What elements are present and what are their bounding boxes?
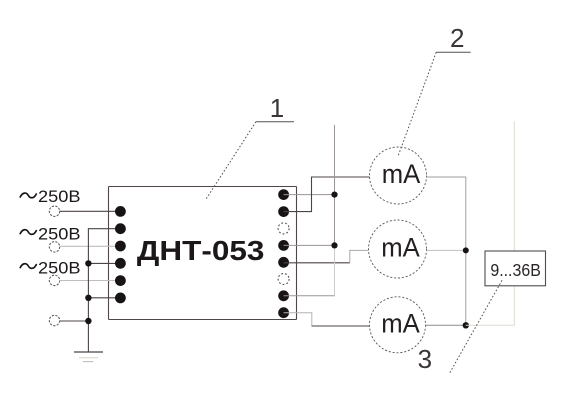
- wire R5 to meter P2: [284, 262, 350, 264]
- pin R6 open: [278, 274, 289, 285]
- pin L4: [115, 258, 126, 269]
- junction supply bus P3 row: [463, 322, 469, 328]
- pin L5: [115, 275, 126, 286]
- transducer U1 box: [109, 187, 297, 320]
- svg-text:250В: 250В: [38, 225, 81, 243]
- wire R2 to meter P1: [284, 177, 370, 212]
- milliammeter P3: [370, 297, 426, 353]
- label ~250В phase 3: [20, 259, 80, 277]
- wire X4 to neutral bus: [60, 320, 89, 322]
- callout 1: [206, 93, 294, 200]
- terminal X4 neutral: [49, 315, 59, 325]
- svg-text:250В: 250В: [38, 259, 81, 277]
- pin L2: [115, 223, 126, 234]
- wire R8 to meter P3 dark segment: [312, 325, 370, 327]
- junction bus R4 row: [331, 242, 337, 248]
- junction on bus at X4 row: [85, 318, 91, 324]
- pin R3 open: [278, 223, 289, 234]
- junction bus R1 row: [331, 192, 337, 198]
- svg-text:250В: 250В: [38, 188, 81, 206]
- wire X3 to pin L5: [60, 280, 121, 282]
- wire bus to pin L6: [88, 297, 120, 299]
- wire X2 to pin L3: [60, 245, 121, 247]
- milliammeter P2: [369, 220, 427, 278]
- pin R8: [278, 307, 289, 318]
- svg-text:mA: mA: [381, 233, 420, 263]
- label ~250В phase 1: [20, 188, 80, 206]
- pin R2: [278, 206, 289, 217]
- pin L3: [115, 241, 126, 252]
- junction on bus at L4 row: [85, 260, 91, 266]
- wire bus to pin L4: [88, 262, 120, 264]
- wire R8 to meter P3: [284, 313, 370, 326]
- neutral bus wire: [88, 229, 120, 352]
- svg-text:mA: mA: [382, 159, 421, 189]
- wire R1 to output bus: [284, 194, 335, 196]
- svg-text:2: 2: [450, 23, 464, 53]
- pin R7: [278, 290, 289, 301]
- label ~250В phase 2: [20, 225, 80, 243]
- wire X1 to pin L1: [60, 210, 121, 212]
- wire R5 to meter P2 entry segment: [350, 250, 369, 262]
- wire P2 to supply bus: [427, 249, 466, 251]
- svg-text:1: 1: [270, 93, 284, 123]
- pin R4: [278, 240, 289, 251]
- pin L6: [115, 293, 126, 304]
- svg-text:mA: mA: [381, 309, 420, 339]
- power supply G1 box: [485, 251, 546, 286]
- pin R1: [278, 189, 289, 200]
- supply minus wire: [466, 286, 515, 325]
- callout 2: [398, 23, 471, 156]
- terminal X1: [49, 206, 59, 216]
- wire R7 to output bus: [284, 295, 335, 297]
- wire P3 to supply bus: [426, 324, 466, 326]
- svg-text:ДНТ-053: ДНТ-053: [137, 235, 265, 266]
- terminal X3: [49, 275, 59, 285]
- output bus vertical lower: [334, 245, 336, 295]
- wire R4 to output bus: [284, 244, 335, 246]
- milliammeter P1: [370, 147, 427, 204]
- pin L1: [115, 206, 126, 217]
- wire P1 to supply bus: [427, 177, 466, 325]
- svg-text:3: 3: [418, 344, 432, 374]
- callout 3: [418, 280, 502, 374]
- junction on bus at L6 row: [85, 295, 91, 301]
- junction supply bus P2 row: [463, 247, 469, 253]
- ground: [74, 352, 103, 362]
- supply plus wire (hanging): [513, 121, 515, 251]
- pin R5: [278, 257, 289, 268]
- output bus vertical upper: [334, 125, 336, 245]
- terminal X2: [49, 242, 59, 252]
- svg-text:9...36В: 9...36В: [490, 260, 541, 280]
